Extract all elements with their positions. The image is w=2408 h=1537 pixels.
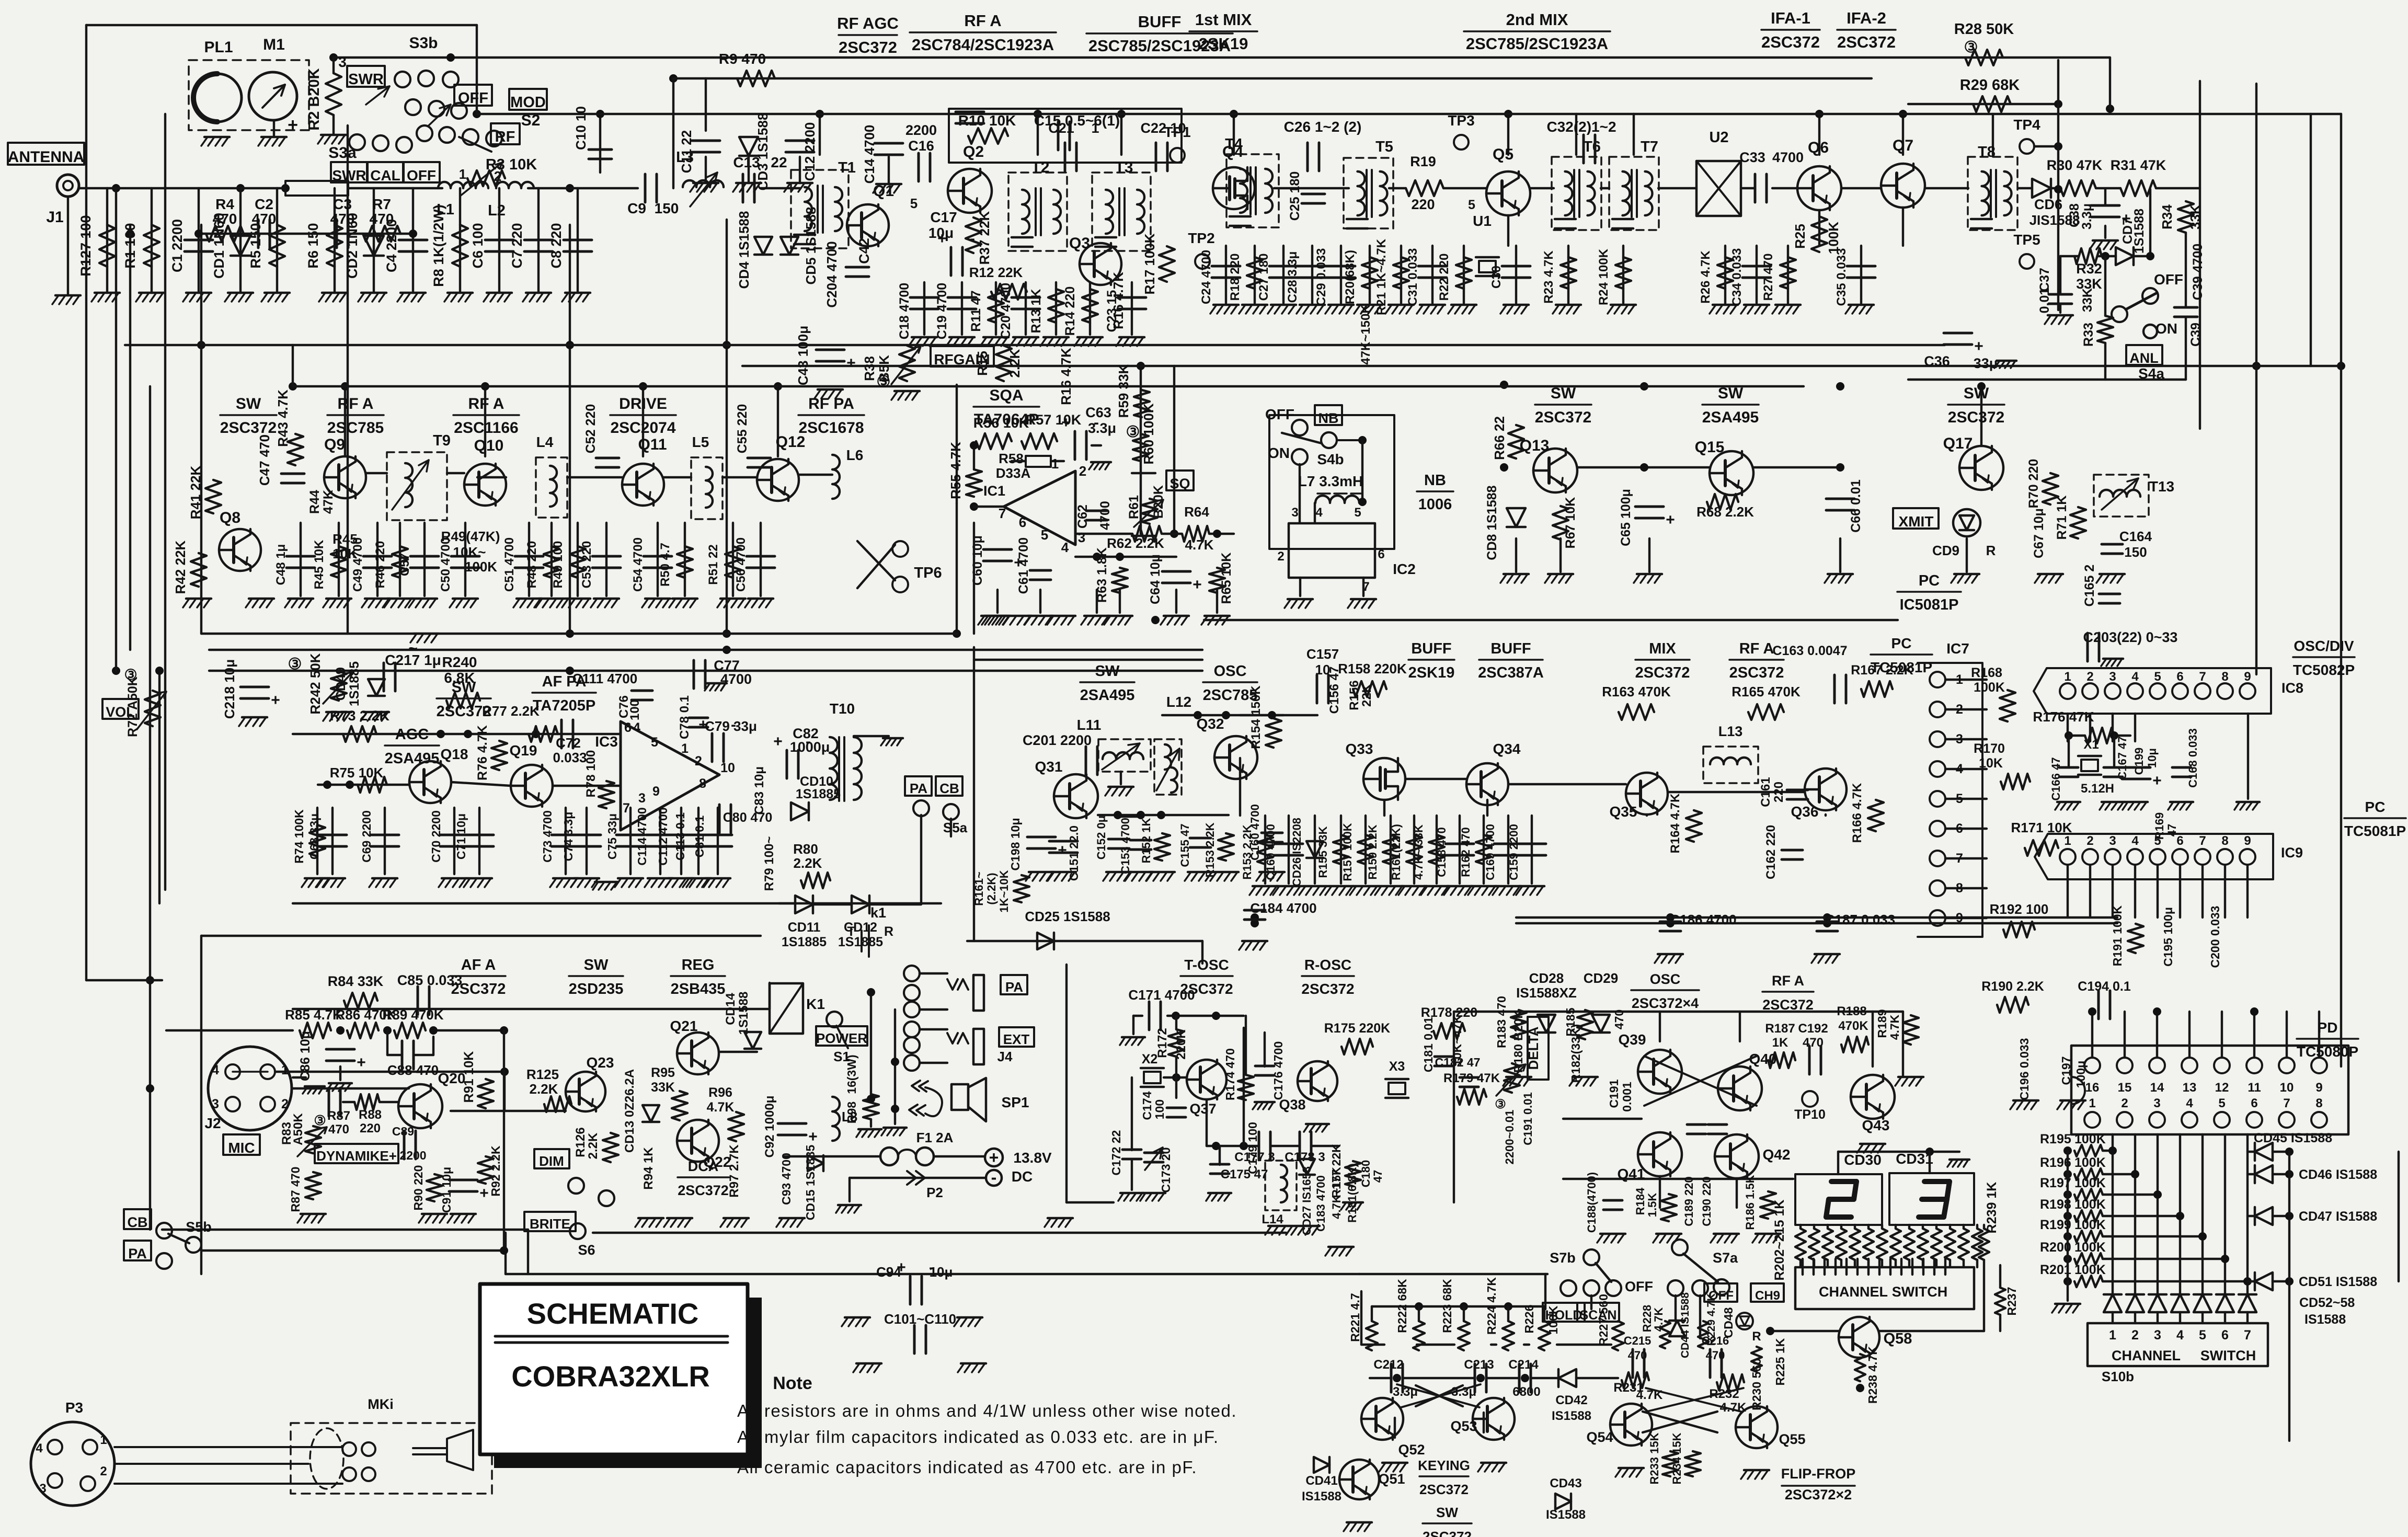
svg-text:R227 560: R227 560 bbox=[1597, 1294, 1610, 1346]
svg-text:C101~C110: C101~C110 bbox=[884, 1311, 956, 1327]
svg-text:C71 10μ: C71 10μ bbox=[454, 813, 468, 859]
svg-text:U2: U2 bbox=[1709, 129, 1728, 146]
svg-text:T3: T3 bbox=[1115, 159, 1133, 176]
svg-text:IC5081P: IC5081P bbox=[1900, 597, 1959, 613]
svg-text:R225 1K: R225 1K bbox=[1773, 1338, 1787, 1385]
svg-text:C214: C214 bbox=[1508, 1358, 1539, 1372]
svg-text:2SC372: 2SC372 bbox=[1729, 664, 1784, 681]
svg-text:R154 150K: R154 150K bbox=[1249, 685, 1263, 749]
svg-text:T4: T4 bbox=[1225, 136, 1243, 153]
svg-text:R57 10K: R57 10K bbox=[1026, 412, 1082, 428]
svg-text:All mylar film capacitors i: All mylar film capacitors indicated as 0… bbox=[737, 1427, 1219, 1447]
svg-text:10μ: 10μ bbox=[2146, 748, 2159, 768]
svg-text:CD4 1S1588: CD4 1S1588 bbox=[736, 211, 752, 289]
svg-text:4: 4 bbox=[1956, 762, 1963, 776]
svg-text:RF A: RF A bbox=[964, 12, 1001, 30]
svg-text:C155 47: C155 47 bbox=[1178, 823, 1191, 867]
svg-text:C39 4700: C39 4700 bbox=[2191, 244, 2205, 300]
svg-text:T6: T6 bbox=[1583, 139, 1601, 155]
svg-text:C171 4700: C171 4700 bbox=[1128, 987, 1195, 1003]
svg-text:2SC372: 2SC372 bbox=[839, 38, 897, 56]
svg-text:R166 4.7K: R166 4.7K bbox=[1850, 783, 1864, 843]
svg-text:R182(33K): R182(33K) bbox=[1569, 1024, 1583, 1083]
svg-text:P3: P3 bbox=[65, 1400, 83, 1416]
svg-text:9: 9 bbox=[1956, 911, 1963, 925]
svg-text:9: 9 bbox=[2244, 834, 2251, 848]
svg-text:6: 6 bbox=[1956, 821, 1963, 836]
svg-text:C165 2: C165 2 bbox=[2082, 565, 2097, 607]
svg-text:C56 4700: C56 4700 bbox=[734, 537, 748, 592]
svg-text:C201 2200: C201 2200 bbox=[1023, 732, 1092, 748]
svg-text:C25 180: C25 180 bbox=[1288, 171, 1302, 221]
svg-text:XMIT: XMIT bbox=[1899, 513, 1934, 530]
svg-text:C213: C213 bbox=[1464, 1358, 1494, 1372]
svg-text:C152 0μ: C152 0μ bbox=[1095, 816, 1108, 859]
svg-text:7: 7 bbox=[2199, 834, 2206, 848]
svg-text:TP6: TP6 bbox=[914, 565, 942, 581]
svg-text:③: ③ bbox=[1495, 1097, 1506, 1111]
svg-text:CB: CB bbox=[128, 1214, 148, 1230]
svg-text:C73 4700: C73 4700 bbox=[541, 810, 554, 863]
svg-text:-: - bbox=[929, 1259, 934, 1276]
svg-text:R70 220: R70 220 bbox=[2026, 459, 2041, 509]
svg-text:L2: L2 bbox=[488, 202, 506, 219]
svg-text:100K: 100K bbox=[1974, 680, 2005, 695]
svg-text:8: 8 bbox=[699, 776, 706, 791]
svg-text:+: + bbox=[271, 692, 280, 709]
svg-text:CD26 IS2208: CD26 IS2208 bbox=[1290, 818, 1303, 887]
svg-text:T2: T2 bbox=[1031, 159, 1049, 176]
svg-text:C169 4700: C169 4700 bbox=[1484, 824, 1497, 880]
svg-text:C11 22: C11 22 bbox=[679, 130, 694, 173]
svg-text:+: + bbox=[846, 354, 856, 372]
svg-text:IS1588XZ: IS1588XZ bbox=[1516, 985, 1577, 1001]
svg-text:TP3: TP3 bbox=[1448, 112, 1474, 129]
svg-text:10K~: 10K~ bbox=[453, 544, 486, 560]
svg-text:C32(2)1~2: C32(2)1~2 bbox=[1546, 119, 1616, 135]
svg-text:9: 9 bbox=[2244, 670, 2251, 684]
svg-text:470: 470 bbox=[213, 211, 237, 227]
svg-text:+: + bbox=[897, 1259, 906, 1276]
svg-text:1S1885: 1S1885 bbox=[796, 787, 841, 801]
svg-text:R168: R168 bbox=[1971, 666, 2002, 680]
svg-text:C66 0.01: C66 0.01 bbox=[1849, 479, 1863, 533]
svg-text:470: 470 bbox=[370, 211, 394, 227]
svg-text:C196 0.033: C196 0.033 bbox=[2017, 1038, 2031, 1100]
svg-text:R33: R33 bbox=[2081, 323, 2096, 347]
svg-text:R156: R156 bbox=[1347, 680, 1361, 710]
svg-text:2SA495: 2SA495 bbox=[1702, 409, 1759, 426]
svg-text:C47 470: C47 470 bbox=[257, 434, 272, 486]
svg-text:R88: R88 bbox=[359, 1108, 382, 1122]
svg-text:C172 22: C172 22 bbox=[1109, 1130, 1123, 1176]
svg-text:Q33: Q33 bbox=[1346, 741, 1373, 757]
svg-text:R188: R188 bbox=[1837, 1004, 1866, 1018]
svg-text:+: + bbox=[1666, 511, 1675, 529]
svg-text:2SC387A: 2SC387A bbox=[1478, 664, 1544, 681]
svg-text:R11 47: R11 47 bbox=[969, 290, 983, 331]
svg-text:R5 150: R5 150 bbox=[248, 223, 263, 268]
svg-text:5: 5 bbox=[910, 196, 918, 211]
svg-text:11: 11 bbox=[2248, 1081, 2261, 1095]
svg-text:R221 4.7: R221 4.7 bbox=[1348, 1293, 1362, 1341]
svg-text:RF A: RF A bbox=[1739, 640, 1774, 657]
svg-text:C181 0.01: C181 0.01 bbox=[1421, 1017, 1435, 1072]
svg-text:3: 3 bbox=[2109, 670, 2116, 684]
svg-text:C160 4700: C160 4700 bbox=[1248, 804, 1262, 861]
svg-text:7: 7 bbox=[2199, 670, 2206, 684]
svg-text:470: 470 bbox=[252, 211, 277, 227]
svg-text:C192: C192 bbox=[1798, 1022, 1828, 1036]
svg-text:MOD: MOD bbox=[510, 94, 546, 111]
svg-text:C191: C191 bbox=[1607, 1079, 1621, 1108]
svg-text:C158 470: C158 470 bbox=[1435, 827, 1448, 877]
svg-text:C67 10μ: C67 10μ bbox=[2032, 508, 2046, 558]
svg-text:R181(6.8K): R181(6.8K) bbox=[1346, 1163, 1359, 1223]
svg-text:R29 68K: R29 68K bbox=[1960, 77, 2020, 94]
svg-text:470K: 470K bbox=[1838, 1019, 1868, 1033]
svg-text:C168 0.033: C168 0.033 bbox=[2186, 728, 2199, 788]
svg-text:R126: R126 bbox=[574, 1127, 588, 1157]
svg-text:1S1885: 1S1885 bbox=[347, 661, 362, 706]
svg-text:R12 22K: R12 22K bbox=[969, 265, 1023, 280]
svg-text:R170: R170 bbox=[1974, 741, 2005, 756]
svg-text:R31 47K: R31 47K bbox=[2111, 157, 2166, 173]
svg-text:C33: C33 bbox=[1739, 150, 1765, 165]
svg-text:S6: S6 bbox=[578, 1242, 595, 1258]
svg-text:2SC372: 2SC372 bbox=[1948, 409, 2004, 426]
svg-text:3: 3 bbox=[39, 1482, 46, 1496]
svg-text:3: 3 bbox=[2154, 1328, 2161, 1343]
svg-text:RF A: RF A bbox=[338, 395, 374, 412]
svg-text:CD25 1S1588: CD25 1S1588 bbox=[1025, 909, 1110, 924]
svg-text:COBRA32XLR: COBRA32XLR bbox=[511, 1360, 710, 1393]
svg-text:SWR: SWR bbox=[348, 71, 384, 88]
svg-text:1: 1 bbox=[1051, 456, 1059, 472]
svg-text:R80: R80 bbox=[793, 841, 818, 857]
svg-text:S3b: S3b bbox=[409, 35, 438, 52]
svg-text:RF: RF bbox=[495, 129, 515, 145]
svg-text:L7 3.3mH: L7 3.3mH bbox=[1298, 473, 1363, 489]
svg-text:FLIP-FROP: FLIP-FROP bbox=[1781, 1466, 1856, 1482]
svg-text:0.01: 0.01 bbox=[2037, 288, 2052, 314]
svg-text:3: 3 bbox=[338, 54, 347, 70]
svg-text:C162 220: C162 220 bbox=[1764, 825, 1778, 879]
svg-text:C51 4700: C51 4700 bbox=[502, 537, 517, 592]
svg-text:R4: R4 bbox=[215, 196, 234, 212]
svg-text:IC7: IC7 bbox=[1946, 640, 1969, 657]
svg-text:5: 5 bbox=[2218, 1096, 2225, 1110]
svg-text:C68 33μ: C68 33μ bbox=[307, 813, 321, 859]
svg-text:16: 16 bbox=[2085, 1081, 2100, 1095]
svg-text:0.033: 0.033 bbox=[553, 750, 587, 765]
svg-text:R240: R240 bbox=[442, 654, 477, 670]
svg-text:1: 1 bbox=[100, 1433, 107, 1447]
svg-text:R91 10K: R91 10K bbox=[462, 1051, 476, 1103]
svg-text:R9 470: R9 470 bbox=[719, 51, 766, 67]
svg-text:Q43: Q43 bbox=[1862, 1117, 1890, 1133]
svg-text:Q6: Q6 bbox=[1808, 139, 1829, 156]
svg-text:Q21: Q21 bbox=[670, 1018, 698, 1034]
svg-text:5.12H: 5.12H bbox=[2081, 782, 2114, 796]
svg-text:R190 2.2K: R190 2.2K bbox=[1981, 979, 2044, 994]
svg-text:2.2K: 2.2K bbox=[1007, 349, 1023, 377]
svg-text:R242 50K: R242 50K bbox=[307, 653, 323, 714]
svg-text:M1: M1 bbox=[263, 36, 285, 53]
svg-text:7: 7 bbox=[2283, 1096, 2290, 1110]
svg-text:2SC372: 2SC372 bbox=[678, 1183, 729, 1198]
svg-text:R72 A50K: R72 A50K bbox=[125, 676, 140, 737]
svg-text:DIM: DIM bbox=[539, 1153, 564, 1169]
svg-text:R: R bbox=[1752, 1329, 1761, 1344]
svg-text:CD48: CD48 bbox=[1722, 1307, 1735, 1338]
svg-text:IS1588: IS1588 bbox=[1546, 1508, 1586, 1522]
svg-text:C31 0.033: C31 0.033 bbox=[1406, 248, 1420, 306]
svg-text:1: 1 bbox=[459, 166, 466, 182]
svg-text:6: 6 bbox=[2221, 1328, 2229, 1343]
svg-text:2SC2074: 2SC2074 bbox=[610, 419, 675, 437]
svg-text:33K: 33K bbox=[2187, 204, 2203, 230]
svg-text:R45 10K: R45 10K bbox=[312, 540, 326, 589]
svg-text:9: 9 bbox=[2315, 1081, 2322, 1095]
svg-text:C23 15: C23 15 bbox=[1105, 290, 1119, 332]
svg-text:C178 3: C178 3 bbox=[1285, 1150, 1325, 1164]
svg-text:T: T bbox=[847, 924, 855, 939]
svg-text:R184: R184 bbox=[1634, 1187, 1647, 1215]
svg-text:MIC: MIC bbox=[228, 1140, 255, 1156]
svg-text:SW: SW bbox=[1551, 385, 1576, 402]
svg-text:BRITE: BRITE bbox=[530, 1216, 570, 1232]
svg-text:1K~10K: 1K~10K bbox=[997, 870, 1011, 912]
svg-text:1: 1 bbox=[2064, 834, 2071, 848]
svg-text:SWITCH: SWITCH bbox=[2200, 1348, 2256, 1363]
svg-text:C198 10μ: C198 10μ bbox=[1008, 818, 1022, 870]
svg-text:2SC372×2: 2SC372×2 bbox=[1785, 1487, 1852, 1502]
svg-text:SW: SW bbox=[236, 395, 261, 412]
svg-text:SQA: SQA bbox=[989, 387, 1023, 404]
svg-text:C157: C157 bbox=[1306, 646, 1339, 662]
svg-text:2: 2 bbox=[2086, 834, 2093, 848]
svg-text:2SC372: 2SC372 bbox=[1419, 1482, 1469, 1497]
svg-text:C183 4700: C183 4700 bbox=[1314, 1175, 1327, 1232]
svg-text:AF A: AF A bbox=[461, 957, 496, 973]
svg-text:Q15: Q15 bbox=[1695, 439, 1725, 456]
svg-text:7: 7 bbox=[1956, 851, 1963, 866]
svg-text:C64 10μ: C64 10μ bbox=[1148, 554, 1163, 604]
svg-text:1.5K: 1.5K bbox=[1646, 1193, 1659, 1218]
svg-text:AGC: AGC bbox=[395, 726, 429, 743]
svg-text:C200 0.033: C200 0.033 bbox=[2208, 906, 2222, 968]
svg-text:TC5081P: TC5081P bbox=[1871, 659, 1932, 675]
svg-text:SP1: SP1 bbox=[1002, 1094, 1029, 1110]
svg-text:-: - bbox=[731, 716, 736, 733]
svg-text:R192 100: R192 100 bbox=[1990, 901, 2049, 917]
svg-text:C1 2200: C1 2200 bbox=[169, 219, 185, 272]
svg-text:OFF: OFF bbox=[407, 167, 436, 183]
svg-text:12: 12 bbox=[2215, 1081, 2229, 1095]
svg-text:C24 4700: C24 4700 bbox=[1199, 250, 1213, 304]
svg-text:4: 4 bbox=[1315, 506, 1323, 520]
svg-text:C187 0.033: C187 0.033 bbox=[1825, 912, 1895, 927]
svg-text:C194 0.1: C194 0.1 bbox=[2078, 979, 2131, 994]
svg-text:C26 1~2 (2): C26 1~2 (2) bbox=[1284, 119, 1362, 135]
svg-text:Note: Note bbox=[773, 1373, 812, 1393]
svg-text:100: 100 bbox=[1153, 1099, 1166, 1119]
svg-text:R16 4.7K: R16 4.7K bbox=[1058, 348, 1074, 405]
svg-text:R7: R7 bbox=[372, 196, 391, 212]
svg-text:R174 470: R174 470 bbox=[1223, 1048, 1237, 1100]
svg-text:C188(4700): C188(4700) bbox=[1585, 1172, 1598, 1233]
svg-text:+: + bbox=[989, 1148, 999, 1167]
svg-text:R21 1K~4.7K: R21 1K~4.7K bbox=[1374, 238, 1389, 315]
svg-text:C55 220: C55 220 bbox=[735, 404, 750, 454]
svg-text:R32: R32 bbox=[2076, 261, 2102, 277]
svg-text:1K: 1K bbox=[1772, 1036, 1788, 1050]
svg-text:10: 10 bbox=[2280, 1081, 2294, 1095]
svg-text:15: 15 bbox=[2118, 1081, 2132, 1095]
svg-text:3: 3 bbox=[638, 791, 646, 806]
svg-text:R1 100: R1 100 bbox=[122, 223, 138, 268]
svg-text:All resistors are in ohms: All resistors are in ohms and 4/1W unles… bbox=[737, 1401, 1237, 1420]
svg-text:OSC: OSC bbox=[1650, 971, 1681, 987]
svg-text:R223 68K: R223 68K bbox=[1440, 1279, 1454, 1333]
svg-text:C215: C215 bbox=[1624, 1334, 1652, 1347]
svg-text:+: + bbox=[1974, 338, 1983, 355]
svg-text:4: 4 bbox=[2131, 834, 2139, 848]
svg-text:2: 2 bbox=[100, 1464, 107, 1478]
svg-text:TP2: TP2 bbox=[1188, 230, 1214, 246]
svg-text:+: + bbox=[1192, 576, 1202, 593]
svg-text:C83 10μ: C83 10μ bbox=[752, 766, 766, 815]
svg-text:(2.2K): (2.2K) bbox=[985, 873, 998, 904]
svg-text:2200: 2200 bbox=[905, 122, 937, 138]
svg-text:4.7K: 4.7K bbox=[1888, 1014, 1901, 1040]
svg-text:DYNAMIKE+: DYNAMIKE+ bbox=[316, 1148, 397, 1164]
svg-text:CH9: CH9 bbox=[1755, 1289, 1780, 1303]
svg-text:RF AGC: RF AGC bbox=[837, 14, 899, 32]
svg-text:5: 5 bbox=[1041, 527, 1048, 543]
svg-text:C203(22) 0~33: C203(22) 0~33 bbox=[2083, 629, 2178, 645]
svg-text:SW: SW bbox=[1436, 1505, 1458, 1520]
svg-text:SW: SW bbox=[1718, 385, 1744, 402]
svg-text:Q53: Q53 bbox=[1450, 1418, 1477, 1434]
svg-text:R187: R187 bbox=[1765, 1022, 1795, 1036]
svg-text:S7a: S7a bbox=[1713, 1250, 1738, 1266]
svg-text:③: ③ bbox=[314, 1112, 326, 1128]
svg-text:5: 5 bbox=[2154, 670, 2161, 684]
svg-text:R51 22: R51 22 bbox=[706, 544, 720, 584]
svg-text:R22 220: R22 220 bbox=[1437, 254, 1451, 301]
svg-text:R44: R44 bbox=[307, 490, 322, 514]
svg-text:Q9: Q9 bbox=[324, 436, 345, 453]
svg-text:R50 4.7: R50 4.7 bbox=[658, 543, 672, 587]
svg-text:1: 1 bbox=[2064, 670, 2071, 684]
svg-text:OFF: OFF bbox=[458, 90, 488, 107]
svg-text:③: ③ bbox=[288, 656, 302, 673]
svg-text:4.7K: 4.7K bbox=[1636, 1388, 1663, 1402]
svg-text:R27 470: R27 470 bbox=[1761, 254, 1775, 301]
svg-text:R28 50K: R28 50K bbox=[1954, 21, 2014, 38]
svg-text:C153 4700: C153 4700 bbox=[1119, 818, 1132, 874]
svg-text:TC5082P: TC5082P bbox=[2293, 662, 2355, 678]
svg-text:Q31: Q31 bbox=[1035, 759, 1063, 775]
svg-text:C72: C72 bbox=[556, 735, 581, 751]
svg-text:R43 4.7K: R43 4.7K bbox=[275, 389, 291, 447]
svg-text:R74 100K: R74 100K bbox=[292, 809, 306, 864]
svg-text:Q5: Q5 bbox=[1493, 146, 1513, 163]
svg-text:Q23: Q23 bbox=[587, 1054, 614, 1071]
svg-text:47K: 47K bbox=[321, 490, 336, 514]
svg-text:U1: U1 bbox=[1473, 213, 1492, 229]
svg-text:R67 10K: R67 10K bbox=[1563, 497, 1578, 549]
svg-text:R87: R87 bbox=[327, 1109, 350, 1123]
svg-text:C17: C17 bbox=[930, 209, 957, 225]
svg-text:150: 150 bbox=[2124, 544, 2147, 560]
svg-text:5: 5 bbox=[1468, 198, 1475, 212]
svg-text:5: 5 bbox=[651, 735, 658, 750]
svg-text:C191 0.01: C191 0.01 bbox=[1521, 1092, 1534, 1145]
svg-text:R87 470: R87 470 bbox=[289, 1167, 302, 1212]
svg-text:Q18: Q18 bbox=[441, 746, 468, 762]
svg-text:R162 470: R162 470 bbox=[1459, 827, 1472, 877]
svg-text:C167 47: C167 47 bbox=[2116, 736, 2129, 779]
svg-text:C7 220: C7 220 bbox=[509, 223, 525, 268]
svg-text:-: - bbox=[970, 230, 975, 247]
svg-text:R158 220K: R158 220K bbox=[1338, 661, 1407, 676]
svg-text:C216: C216 bbox=[1702, 1334, 1729, 1347]
svg-text:SWITCH: SWITCH bbox=[1892, 1284, 1947, 1300]
svg-text:100: 100 bbox=[628, 699, 642, 720]
svg-text:C15 0.5~6(1): C15 0.5~6(1) bbox=[1034, 112, 1120, 129]
svg-text:4: 4 bbox=[2176, 1328, 2184, 1343]
svg-text:-: - bbox=[806, 733, 811, 750]
svg-text:TA7205P: TA7205P bbox=[533, 697, 595, 714]
svg-text:R48 220: R48 220 bbox=[525, 541, 539, 589]
svg-text:R127 100: R127 100 bbox=[78, 215, 94, 276]
svg-text:ANL: ANL bbox=[2129, 350, 2159, 366]
svg-text:C2: C2 bbox=[255, 196, 273, 212]
svg-text:CD45 IS1588: CD45 IS1588 bbox=[2254, 1131, 2332, 1145]
svg-text:2SC372: 2SC372 bbox=[1761, 33, 1820, 51]
svg-text:IC8: IC8 bbox=[2281, 680, 2303, 696]
svg-text:C18 4700: C18 4700 bbox=[897, 283, 912, 339]
svg-text:CD49: CD49 bbox=[334, 667, 348, 701]
svg-text:C21: C21 bbox=[1048, 120, 1074, 136]
svg-text:2: 2 bbox=[1277, 549, 1284, 564]
svg-text:C52 220: C52 220 bbox=[583, 404, 598, 454]
svg-text:C27 180: C27 180 bbox=[1257, 254, 1271, 301]
svg-text:A50K: A50K bbox=[291, 1113, 305, 1145]
svg-text:IC2: IC2 bbox=[1393, 561, 1416, 577]
svg-text:10K~47K: 10K~47K bbox=[1450, 1015, 1464, 1066]
svg-text:2SD235: 2SD235 bbox=[569, 981, 624, 997]
svg-text:S3a: S3a bbox=[328, 144, 357, 162]
svg-text:C159 2200: C159 2200 bbox=[1507, 824, 1520, 880]
svg-text:220: 220 bbox=[1411, 197, 1435, 212]
svg-text:C91 10μ: C91 10μ bbox=[440, 1167, 453, 1213]
svg-text:C164: C164 bbox=[2119, 529, 2152, 544]
svg-text:C93 4700: C93 4700 bbox=[779, 1153, 793, 1205]
svg-text:4: 4 bbox=[212, 1063, 219, 1077]
svg-text:C70 2200: C70 2200 bbox=[429, 810, 443, 863]
svg-text:Q38: Q38 bbox=[1279, 1097, 1305, 1112]
svg-text:K1: K1 bbox=[806, 996, 825, 1012]
svg-text:4.7K~ 33K: 4.7K~ 33K bbox=[1412, 824, 1425, 880]
svg-text:2SC784/2SC1923A: 2SC784/2SC1923A bbox=[912, 36, 1054, 54]
svg-text:Q19: Q19 bbox=[510, 742, 537, 759]
svg-text:C61 4700: C61 4700 bbox=[1016, 537, 1031, 594]
svg-text:R238 4.7K: R238 4.7K bbox=[1866, 1346, 1879, 1404]
